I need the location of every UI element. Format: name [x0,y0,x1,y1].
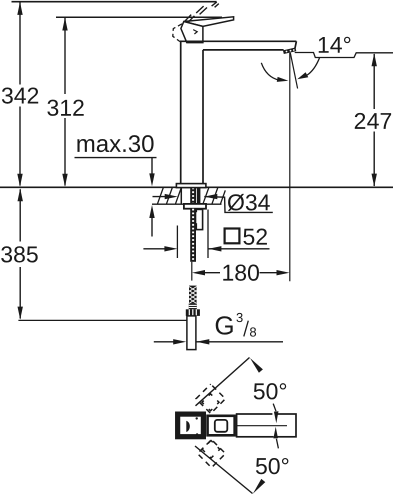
counter hatching [158,188,226,204]
threaded rod upper part [190,188,196,204]
extension line top (faucet max height) [12,1,217,3]
lever chevron mark [193,30,197,34]
hose nipple bracket [196,209,202,229]
label 385 [1,246,12,262]
stream vertical reference line [289,53,291,281]
spout centerline [237,425,287,427]
stream 14deg tilted line [290,53,297,89]
dashed diamond upper inner [202,394,219,411]
countertop line [0,186,393,188]
body screw dots [196,417,198,419]
swivel arc right with arrow [297,58,319,80]
swivel ray lower [195,446,253,494]
label 50 lower [256,458,267,474]
label max.30 [77,139,94,152]
lever handle solid [181,17,234,43]
swivel ray upper [196,358,250,406]
dim sq52 extension lines [176,226,178,259]
dimension 385 line [18,188,23,319]
dim sq52 arrows [143,246,269,251]
dimension 312 line [62,18,67,187]
spout top view [237,414,296,437]
extension line for 312 [56,16,222,18]
mounting flange [176,184,206,188]
lever open silhouette dashed [173,24,182,42]
hose collar rings [189,304,197,310]
aerator (spout outlet) [283,48,296,55]
lever raised position dashes [185,2,219,23]
dimension 247 line [372,53,377,186]
label G3/8 [216,313,256,337]
braided hose [189,286,197,304]
label 342 [2,87,13,103]
swivel arc left with arrow [261,63,288,82]
label dia34 [228,194,244,211]
leader arrow lower 50 [253,479,265,494]
dashed diamond lower inner [202,441,220,459]
dim dia34 arrows [153,194,273,213]
label 180 [223,265,233,281]
hose hex nut [186,309,200,316]
dimension 180 line [192,270,290,275]
leader arrow upper 50 [250,358,263,373]
dashed diamond lower outer [198,440,226,468]
max.30 upper arrow (counter top) [149,158,154,187]
body square (handle end) [178,414,204,437]
label square52 [225,229,267,245]
G3/8 dimension arrows [154,339,283,344]
label 312 [47,100,58,116]
label 50 upper [254,383,265,399]
centerline below rod [191,262,193,281]
shank in counter hole [181,188,200,204]
counter bottom line [152,203,222,205]
mounting nut [184,204,206,209]
D mark inside body [186,421,190,432]
threaded rod lower part [190,209,196,262]
extension line hose end [18,319,195,321]
max.30 leader underline [75,157,157,159]
angle arc arrow lower [273,427,278,449]
dashed diamond upper outer [196,384,225,413]
label 14deg [319,37,329,53]
14 deg leader [295,53,393,58]
dimension 342 line [17,2,22,187]
faucet body outline [180,41,296,184]
inner rounded square [215,420,228,432]
G3/8 threaded tube [187,316,196,350]
cartridge block [208,416,235,436]
label 247 [355,113,365,129]
max.30 lower arrow (counter bottom) [149,205,154,237]
angle arc arrow upper [273,404,278,424]
